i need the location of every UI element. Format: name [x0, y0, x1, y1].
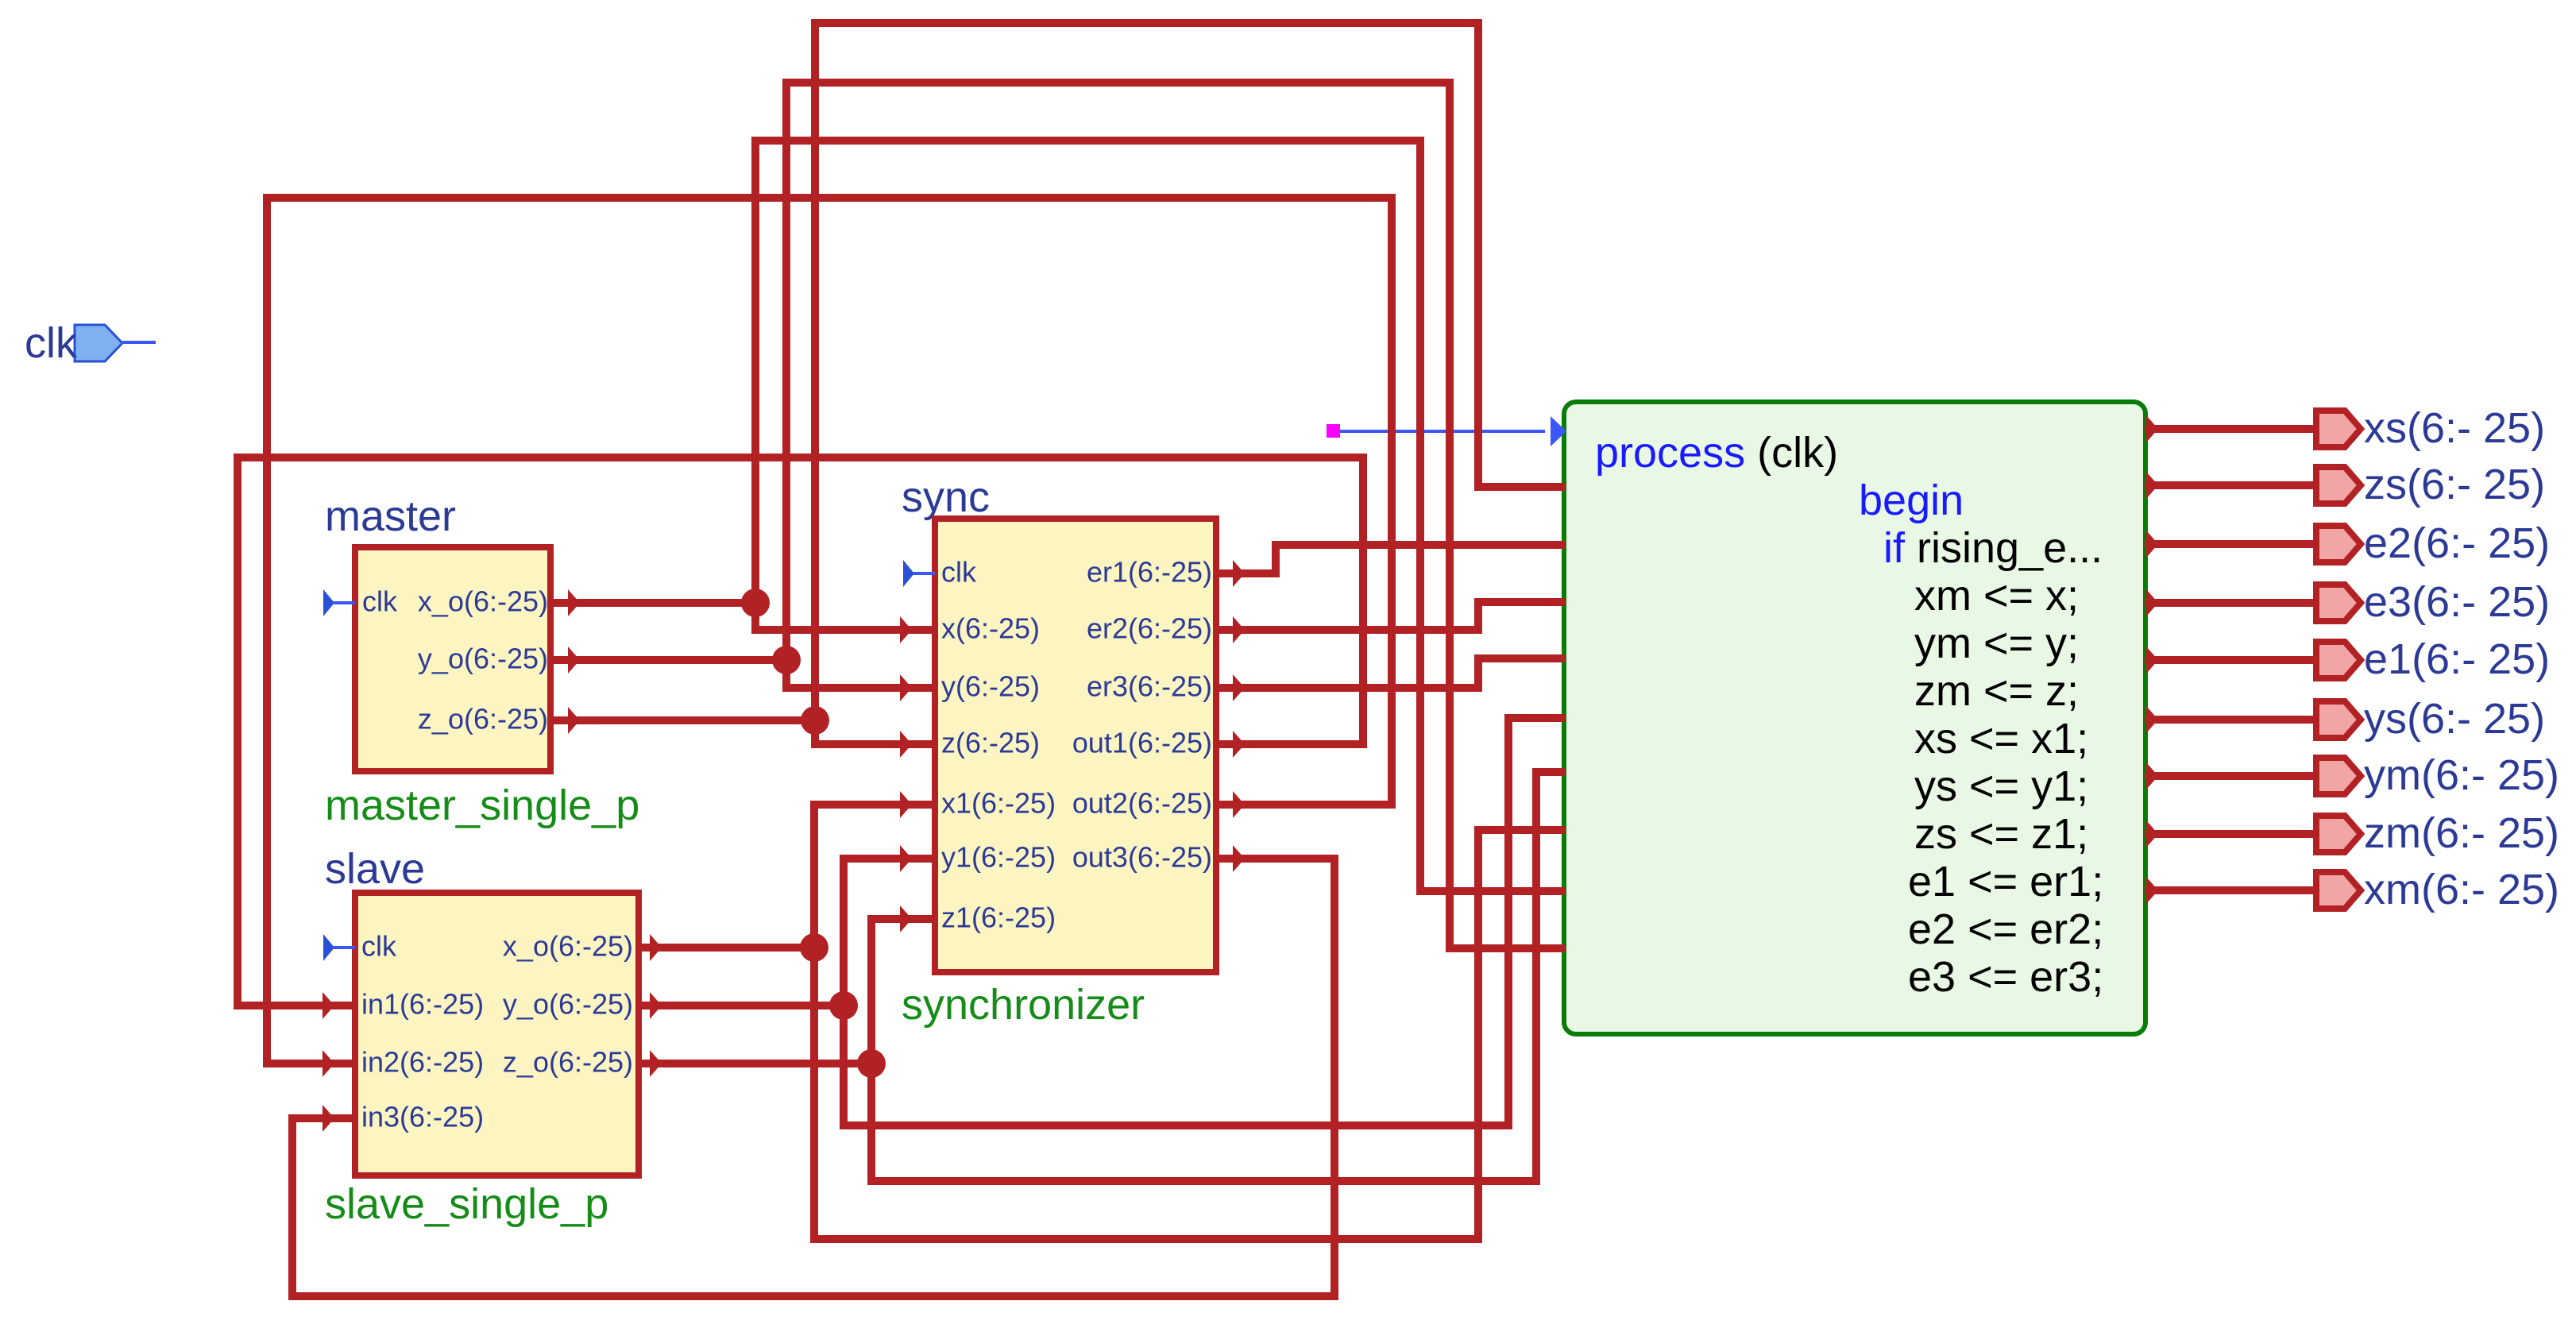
- label ys(6:- 25) (port name): [2364, 697, 2545, 740]
- wire clk stub from port: [122, 341, 156, 344]
- wire process output to port xm: [2145, 886, 2315, 894]
- net handle (magenta selection square): [1327, 424, 1340, 438]
- pin z(6:-25) of sync: [941, 729, 1040, 758]
- wire net z1 from slave z_o: [635, 1060, 871, 1067]
- wire net y from master y_o: [547, 656, 786, 664]
- pin z_o(6:-25) of slave: [503, 1048, 633, 1077]
- wire net out2 upper run: [267, 194, 1392, 202]
- label zm(6:- 25) (port name): [2364, 812, 2559, 855]
- wire net z1 into process: [1536, 768, 1565, 776]
- pin x1(6:-25) of sync: [941, 789, 1056, 818]
- output port zs (pentagon symbol): [2313, 464, 2366, 507]
- code line if rising_e...: [1883, 527, 2103, 569]
- wire net z riser to top: [811, 19, 819, 748]
- wire process output to port zm: [2145, 830, 2315, 838]
- pin out3(6:-25) of sync: [1072, 844, 1212, 872]
- wire net x1 into sync x1: [814, 801, 934, 809]
- wire clk input stub of master (blue): [323, 589, 334, 616]
- junction net y: [772, 646, 801, 674]
- wire net z into sync z: [815, 740, 934, 748]
- code line begin: [1859, 479, 1964, 522]
- output port ys (pentagon symbol): [2313, 698, 2366, 741]
- wire net z from master z_o: [547, 716, 815, 724]
- wire net er3 jog up: [1474, 654, 1482, 692]
- wire net y drop to process: [1446, 79, 1454, 952]
- wire net z1 lower run: [871, 1177, 1536, 1185]
- label e3(6:- 25) (port name): [2364, 581, 2550, 623]
- wire net y1 lower run: [844, 1121, 1508, 1129]
- code line process (clk): [1595, 431, 1838, 474]
- label sync (instance name): [902, 476, 990, 519]
- wire net x into process: [1420, 887, 1565, 895]
- wire process output to port e1: [2145, 656, 2315, 664]
- wire clk to process (blue): [1340, 430, 1545, 433]
- label synchronizer (component type): [902, 983, 1145, 1026]
- label slave_single_p (component type): [325, 1183, 608, 1226]
- label e2(6:- 25) (port name): [2364, 522, 2550, 565]
- output port xs (pentagon symbol): [2313, 407, 2366, 450]
- output port e1 (pentagon symbol): [2313, 639, 2366, 681]
- pin out1(6:-25) of sync: [1072, 729, 1212, 758]
- pin x_o(6:-25) of master: [418, 588, 548, 616]
- label ym(6:- 25) (port name): [2364, 754, 2559, 797]
- label master_single_p (component type): [325, 784, 639, 827]
- label master (instance name): [325, 495, 456, 538]
- wire net out3 drop: [1330, 855, 1338, 1300]
- wire net out2 drop at left: [263, 194, 271, 1067]
- junction net z: [801, 706, 829, 735]
- wire net z drop to process: [1474, 19, 1482, 491]
- wire net y1 into sync y1: [844, 855, 934, 863]
- code line xm &lt;= x;: [1914, 574, 2079, 617]
- wire net x1 riser to process: [1474, 826, 1482, 1243]
- code line e2 &lt;= er2;: [1908, 908, 2103, 951]
- wire process output to port ys: [2145, 716, 2315, 724]
- wire net out1 drop at left: [234, 454, 241, 1010]
- wire net y into sync y: [786, 684, 934, 692]
- wire net er1 jog up: [1272, 541, 1280, 577]
- wire process output to port e3: [2145, 599, 2315, 607]
- code line zm &lt;= z;: [1914, 670, 2079, 712]
- output port e2 (pentagon symbol): [2313, 523, 2366, 566]
- input port clk (pentagon symbol): [73, 323, 126, 363]
- junction net x1: [800, 933, 828, 962]
- wire net out2 riser: [1388, 194, 1396, 809]
- junction net z1: [857, 1049, 886, 1078]
- wire process output to port ym: [2145, 772, 2315, 780]
- wire process output to port xs: [2145, 425, 2315, 433]
- pin clk of master: [362, 588, 397, 616]
- wire net z1 into sync z1: [871, 915, 934, 923]
- label xs(6:- 25) (port name): [2364, 407, 2545, 450]
- code line zs &lt;= z1;: [1914, 813, 2088, 855]
- wire net x into sync x: [755, 626, 934, 634]
- wire net x1 riser to sync: [810, 801, 818, 1243]
- component synchronizer block outline: [932, 515, 1219, 975]
- pin y(6:-25) of sync: [941, 673, 1040, 701]
- code line xs &lt;= x1;: [1914, 717, 2088, 760]
- wire net z into process: [1478, 483, 1565, 491]
- wire net y1 into process: [1508, 714, 1565, 722]
- wire net er2 into process: [1478, 598, 1565, 606]
- wire net x1 into process: [1478, 826, 1565, 834]
- output port zm (pentagon symbol): [2313, 813, 2366, 855]
- process block outline: [1562, 400, 2148, 1037]
- wire net out1 from sync out1: [1215, 740, 1363, 748]
- pin x_o(6:-25) of slave: [503, 932, 633, 961]
- code line ys &lt;= y1;: [1914, 765, 2088, 808]
- wire net er1 into process: [1276, 541, 1565, 549]
- wire net y1 from slave y_o: [635, 1002, 844, 1010]
- pin out2(6:-25) of sync: [1072, 789, 1212, 818]
- wire net er2 from sync er2: [1215, 626, 1478, 634]
- code line e3 &lt;= er3;: [1908, 955, 2103, 998]
- label slave (instance name): [325, 847, 425, 890]
- pin y_o(6:-25) of master: [418, 645, 548, 674]
- wire net out3 riser at left: [288, 1114, 296, 1300]
- pin in1(6:-25) of slave: [361, 990, 484, 1019]
- junction net y1: [829, 991, 858, 1020]
- wire net x riser to top: [751, 137, 759, 634]
- pin clk of sync: [941, 558, 976, 587]
- wire net x from master x_o: [547, 599, 755, 607]
- wire clk input stub of sync (blue): [903, 560, 914, 587]
- label e1(6:- 25) (port name): [2364, 638, 2550, 681]
- wire net er3 into process: [1478, 654, 1565, 662]
- wire net y top run: [786, 79, 1450, 87]
- pin x(6:-25) of sync: [941, 615, 1040, 643]
- wire net out2 into slave in2: [267, 1060, 354, 1067]
- pin er3(6:-25) of sync: [1087, 673, 1212, 701]
- pin y1(6:-25) of sync: [941, 844, 1056, 872]
- wire clk input stub of slave (blue): [323, 934, 334, 961]
- wire net y1 riser to process: [1504, 714, 1512, 1129]
- junction net x: [741, 589, 770, 617]
- wire net out3 bottom run: [292, 1292, 1334, 1300]
- wire net er1 from sync er1: [1215, 569, 1276, 577]
- component slave_single_p block outline: [352, 890, 642, 1179]
- label clk (port name): [25, 322, 77, 365]
- pin in2(6:-25) of slave: [361, 1048, 484, 1077]
- wire net x1 lower run: [814, 1235, 1478, 1243]
- pin er1(6:-25) of sync: [1087, 558, 1212, 587]
- component master_single_p block outline: [352, 544, 554, 774]
- code line ym &lt;= y;: [1914, 622, 2079, 665]
- label xm(6:- 25) (port name): [2364, 868, 2559, 911]
- output port xm (pentagon symbol): [2313, 869, 2366, 912]
- wire net out1 into slave in1: [238, 1002, 354, 1010]
- code line e1 &lt;= er1;: [1908, 860, 2103, 903]
- pin z1(6:-25) of sync: [941, 904, 1056, 932]
- wire net z top run: [815, 19, 1478, 27]
- wire net y into process: [1450, 944, 1565, 952]
- output port e3 (pentagon symbol): [2313, 581, 2366, 624]
- wire net x top run: [755, 137, 1420, 145]
- output port ym (pentagon symbol): [2313, 755, 2366, 797]
- wire net out1 riser: [1359, 454, 1367, 748]
- label zs(6:- 25) (port name): [2364, 463, 2545, 506]
- pin y_o(6:-25) of slave: [503, 990, 633, 1019]
- pin in3(6:-25) of slave: [361, 1103, 484, 1132]
- wire net er2 jog up: [1474, 598, 1482, 634]
- wire process output to port e2: [2145, 540, 2315, 548]
- pin clk of slave: [361, 932, 396, 961]
- wire net z1 riser to sync: [867, 915, 875, 1185]
- wire net out1 upper run: [238, 454, 1363, 461]
- wire net y1 riser to sync: [840, 855, 848, 1129]
- wire net out3 from sync out3: [1215, 855, 1334, 863]
- pin er2(6:-25) of sync: [1087, 615, 1212, 643]
- wire net y riser to top: [782, 79, 790, 692]
- wire net z1 riser to process: [1532, 768, 1540, 1185]
- wire net x1 from slave x_o: [635, 944, 814, 952]
- wire net x drop to process: [1416, 137, 1424, 895]
- wire net out2 from sync out2: [1215, 801, 1392, 809]
- wire net er3 from sync er3: [1215, 684, 1478, 692]
- wire net out3 into slave in3: [292, 1114, 354, 1122]
- wire process output to port zs: [2145, 481, 2315, 489]
- pin z_o(6:-25) of master: [418, 705, 548, 734]
